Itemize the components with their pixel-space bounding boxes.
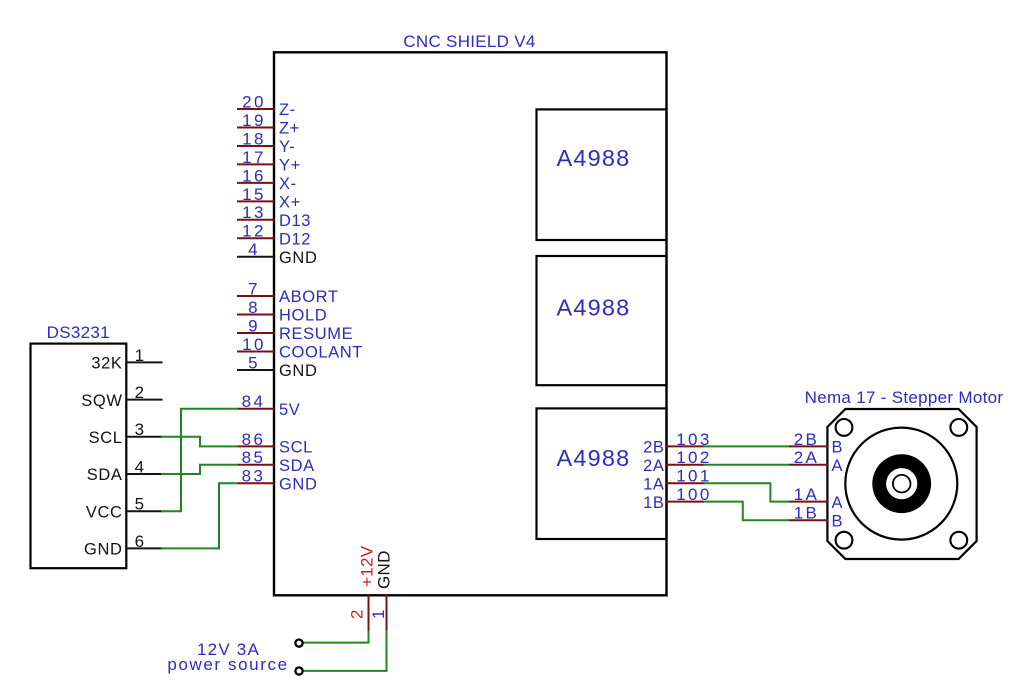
svg-text:13: 13: [242, 203, 266, 222]
motor shaft ring: [893, 475, 911, 493]
svg-text:85: 85: [242, 448, 266, 467]
wire GND to 83: [161, 483, 238, 548]
svg-text:A4988: A4988: [557, 145, 631, 171]
wire 103 to motor 2B: [704, 445, 790, 447]
svg-text:16: 16: [242, 166, 266, 185]
motor pin 2B B: [789, 430, 843, 457]
motor bolt hole bottom-left: [836, 532, 853, 549]
A4988 driver module 3: [537, 408, 667, 539]
wire VCC to 5V: [161, 409, 238, 511]
svg-text:1: 1: [135, 346, 147, 365]
svg-text:HOLD: HOLD: [279, 307, 327, 325]
svg-text:9: 9: [248, 316, 260, 335]
wire GND to power source: [303, 631, 387, 671]
svg-text:Z-: Z-: [279, 101, 296, 119]
motor bolt hole top-left: [836, 419, 853, 436]
svg-text:A4988: A4988: [557, 445, 631, 471]
pin 7 ABORT: [237, 279, 339, 306]
svg-text:19: 19: [242, 111, 266, 130]
svg-text:84: 84: [242, 392, 266, 411]
svg-text:2: 2: [135, 383, 147, 402]
svg-text:SDA: SDA: [87, 466, 123, 484]
pin 86 SCL: [238, 430, 313, 457]
svg-text:A: A: [832, 457, 844, 475]
motor bolt hole top-right: [950, 419, 967, 436]
pin 85 SDA: [238, 448, 315, 475]
svg-text:X+: X+: [279, 194, 301, 212]
svg-text:COOLANT: COOLANT: [279, 344, 363, 362]
pin 15 X+: [237, 185, 301, 212]
svg-text:VCC: VCC: [86, 503, 123, 521]
svg-text:7: 7: [248, 279, 260, 298]
svg-text:17: 17: [242, 148, 266, 167]
DS3231 pin 4 SDA: [87, 457, 163, 484]
DS3231 pin 6 GND: [84, 532, 162, 559]
A4988 driver module 1: [537, 109, 667, 240]
Nema 17 stepper motor M1 body: [827, 409, 976, 559]
pin 20 Z-: [237, 92, 296, 119]
svg-text:SDA: SDA: [279, 457, 315, 475]
pin 1 GND stub: [369, 550, 394, 631]
pin 101 1A shield side: [643, 467, 712, 494]
pin 16 X-: [237, 166, 297, 193]
svg-text:15: 15: [242, 185, 266, 204]
svg-text:3: 3: [135, 420, 147, 439]
svg-text:GND: GND: [375, 550, 394, 589]
DS3231 pin 2 SQW: [81, 383, 162, 410]
svg-text:10: 10: [242, 335, 266, 354]
svg-text:83: 83: [242, 467, 266, 486]
svg-text:X-: X-: [279, 175, 297, 193]
pin 18 Y-: [237, 129, 295, 156]
pin 4 GND: [237, 240, 317, 267]
DS3231 pin 3 SCL: [89, 420, 163, 447]
pin 10 COOLANT: [237, 335, 363, 362]
svg-text:12: 12: [242, 222, 266, 241]
svg-text:DS3231: DS3231: [47, 323, 110, 342]
svg-text:SCL: SCL: [279, 439, 313, 457]
svg-text:1: 1: [369, 607, 388, 619]
svg-text:A: A: [832, 494, 844, 512]
svg-text:CNC SHIELD V4: CNC SHIELD V4: [403, 32, 535, 51]
motor rotor white disc: [886, 468, 917, 499]
motor pin 1B B: [789, 504, 843, 531]
svg-text:2A: 2A: [794, 448, 820, 467]
svg-text:18: 18: [242, 129, 266, 148]
label 12V 3A power source: [167, 640, 288, 674]
svg-text:GND: GND: [279, 249, 317, 267]
wire 101 to motor 1A: [704, 483, 790, 501]
pin 19 Z+: [237, 111, 300, 138]
motor pin 2A A: [789, 448, 843, 475]
svg-text:1A: 1A: [794, 485, 820, 504]
motor pin 1A A: [789, 485, 843, 512]
power source terminal +: [295, 640, 302, 647]
svg-text:D12: D12: [279, 231, 311, 249]
svg-text:Nema 17 - Stepper Motor: Nema 17 - Stepper Motor: [805, 388, 1004, 407]
svg-text:86: 86: [242, 430, 266, 449]
pin 13 D13: [237, 203, 311, 230]
A4988 driver module 2: [537, 256, 667, 385]
motor face circle: [845, 428, 957, 540]
pin 100 1B shield side: [643, 485, 712, 512]
svg-text:GND: GND: [279, 475, 317, 493]
pin 17 Y+: [237, 148, 301, 175]
svg-text:SCL: SCL: [89, 429, 123, 447]
svg-text:4: 4: [248, 240, 260, 259]
pin 103 2B shield side: [643, 430, 712, 457]
svg-text:2B: 2B: [794, 430, 820, 449]
pin 12 D12: [237, 222, 311, 249]
svg-text:A4988: A4988: [557, 295, 631, 321]
motor rotor black disc: [872, 454, 931, 513]
svg-text:RESUME: RESUME: [279, 325, 353, 343]
pin 2 +12V stub: [348, 545, 377, 631]
svg-text:Z+: Z+: [279, 120, 300, 138]
pin 102 2A shield side: [643, 448, 712, 475]
wire +12V to power source: [303, 631, 369, 643]
svg-text:B: B: [832, 512, 844, 530]
DS3231 RTC module U2: [31, 344, 127, 569]
svg-text:SQW: SQW: [81, 392, 122, 410]
pin 5 GND: [237, 353, 317, 380]
wire 100 to motor 1B: [704, 502, 790, 521]
svg-text:GND: GND: [279, 362, 317, 380]
svg-text:20: 20: [242, 92, 266, 111]
svg-text:2: 2: [348, 607, 367, 619]
svg-text:5: 5: [248, 353, 260, 372]
pin 83 GND: [238, 467, 318, 494]
svg-text:GND: GND: [84, 541, 122, 559]
svg-text:1B: 1B: [794, 504, 820, 523]
svg-text:2B: 2B: [643, 439, 664, 457]
wire SDA to 85: [161, 465, 238, 474]
svg-text:8: 8: [248, 298, 260, 317]
svg-text:5V: 5V: [279, 401, 300, 419]
wire 102 to motor 2A: [704, 464, 790, 466]
pin 84 5V: [238, 392, 301, 419]
svg-text:6: 6: [135, 532, 147, 551]
svg-text:2A: 2A: [643, 457, 664, 475]
svg-text:D13: D13: [279, 212, 311, 230]
svg-text:4: 4: [135, 457, 147, 476]
svg-text:ABORT: ABORT: [279, 288, 339, 306]
DS3231 pin 1 32K: [91, 346, 162, 373]
pin 8 HOLD: [237, 298, 327, 325]
svg-text:5: 5: [135, 495, 147, 514]
svg-text:1B: 1B: [643, 494, 664, 512]
svg-text:Y+: Y+: [279, 157, 301, 175]
DS3231 pin 5 VCC: [86, 495, 163, 522]
CNC Shield board outline U1: [274, 52, 667, 595]
wire SCL to 86: [161, 437, 238, 447]
svg-text:power source: power source: [167, 655, 288, 674]
pin 9 RESUME: [237, 316, 353, 343]
svg-text:1A: 1A: [643, 475, 664, 493]
svg-text:32K: 32K: [91, 355, 122, 373]
svg-text:Y-: Y-: [279, 138, 295, 156]
power source terminal -: [295, 667, 302, 674]
svg-text:B: B: [832, 439, 844, 457]
motor bolt hole bottom-right: [950, 532, 967, 549]
